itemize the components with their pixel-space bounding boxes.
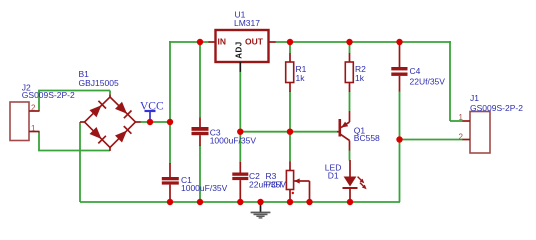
potentiometer R3 wiper arrow <box>292 178 310 202</box>
pin number 1 of J1 <box>459 113 464 122</box>
connector J1 <box>470 112 490 154</box>
node VCC tap <box>147 119 153 125</box>
wire: right vertical drop to J1 pin 1 <box>450 41 463 121</box>
label VCC <box>140 100 164 112</box>
pin number 2 of J1 <box>459 132 464 141</box>
label C1 value 1000uF/35V <box>181 183 228 193</box>
wire: R1 top lead wire <box>289 42 291 53</box>
label Q1 value BC558 <box>354 133 380 143</box>
wire: bottom ground rail <box>80 201 400 203</box>
pin name ADJ (rotated) <box>235 41 244 59</box>
junction ground rail C2 <box>237 199 243 205</box>
wire: C4 node to J1 pin 2 <box>400 139 464 141</box>
label J1 refdes <box>470 93 479 103</box>
label R2 refdes <box>355 64 366 74</box>
label R2 value 1k <box>355 73 365 83</box>
LED D1 <box>343 160 358 202</box>
wire: R2 bottom to Q1 emitter <box>349 92 351 112</box>
node OUT- at J1 pin 2 tap <box>396 136 402 142</box>
pin stub J1 pin 1 <box>463 120 471 122</box>
junction ground rail C3 <box>197 199 203 205</box>
svg-text:POT: POT <box>266 179 283 189</box>
pin stub U1 IN <box>209 41 216 43</box>
bridge diode (left to bottom) <box>90 127 106 143</box>
resistor R1 <box>286 53 294 92</box>
bridge diode (top to right) <box>115 102 132 119</box>
svg-text:LM317: LM317 <box>234 18 260 28</box>
capacitor C3 <box>192 118 209 147</box>
pin stub J1 pin 2 <box>463 139 471 141</box>
label C4 value 22Uf/35V <box>410 77 446 87</box>
svg-text:2: 2 <box>31 103 36 112</box>
potentiometer R3 body <box>286 162 293 203</box>
bridge diode (bottom to right) <box>115 126 131 142</box>
label R1 value 1k <box>296 73 306 83</box>
svg-text:1000uF/35V: 1000uF/35V <box>210 136 257 146</box>
wire: J2 pin 1 to bridge AC bottom (crosses vertical, no junction) <box>38 132 110 151</box>
pin stub J2 pin 2 <box>29 110 40 112</box>
transistor Q1 emitter with PNP arrow <box>341 111 350 128</box>
label C3 value 1000uF/35V <box>210 136 257 146</box>
wire: C3 column upper <box>199 42 201 118</box>
node VCC at C1 column <box>167 119 173 125</box>
wire: bridge negative vertical down to ground rail <box>79 122 81 202</box>
svg-text:D1: D1 <box>328 170 339 180</box>
node VOUT at R2 tap <box>346 39 352 45</box>
svg-text:GS009S-2P-2: GS009S-2P-2 <box>22 90 75 100</box>
label J2 value GS009S-2P-2 <box>22 90 75 100</box>
svg-text:IN: IN <box>218 37 227 47</box>
wire: R1 bottom lead wire <box>289 92 291 132</box>
bridge diode (left to top) <box>90 101 107 118</box>
svg-text:2: 2 <box>459 132 464 141</box>
label LED <box>325 162 342 172</box>
power symbol VCC <box>145 111 156 122</box>
svg-text:22Uf/35V: 22Uf/35V <box>410 77 446 87</box>
node ADJ at C2 column <box>237 129 243 135</box>
label C2 value 22uF/35V <box>249 179 286 189</box>
svg-text:ADJ: ADJ <box>235 41 244 59</box>
label R3 refdes <box>266 171 277 181</box>
connector J2 <box>10 102 29 141</box>
wire: C4 column lower down to ground rail <box>399 91 401 202</box>
pin name IN <box>218 37 227 47</box>
pin number 2 of J2 <box>31 103 36 112</box>
svg-text:OUT: OUT <box>245 37 264 47</box>
pin number 1 of J2 <box>31 124 36 133</box>
wire: R2 top lead wire <box>349 42 351 53</box>
label Q1 refdes <box>354 126 366 136</box>
label B1 refdes <box>79 69 90 79</box>
capacitor C1 <box>162 163 179 202</box>
regulator U1 LM317 box <box>216 30 269 62</box>
svg-text:GS009S-2P-2: GS009S-2P-2 <box>470 103 523 113</box>
wire: VCC rail from bridge + to C1 column <box>140 121 171 123</box>
transistor Q1 collector <box>340 134 350 151</box>
svg-text:VCC: VCC <box>140 100 164 112</box>
pin stub U1 ADJ (dark) <box>239 62 241 72</box>
label J2 refdes <box>22 83 31 93</box>
junction ground rail LED <box>347 199 353 205</box>
node VIN at C3 tap <box>197 39 203 45</box>
wire: J2 pin 2 to bridge AC top <box>38 91 110 112</box>
capacitor C4 <box>391 42 407 92</box>
label U1 value LM317 <box>234 18 260 28</box>
wire: C3 column lower to ground rail <box>199 146 201 203</box>
wire: top rail left segment (VIN to U1) <box>169 41 209 43</box>
wire: R3 top wire from ADJ net <box>289 132 291 162</box>
label D1 <box>328 170 339 180</box>
bridge rectifier B1 diamond outline <box>80 95 141 151</box>
label C3 refdes <box>210 128 221 138</box>
label C1 refdes <box>181 175 192 185</box>
svg-text:1000uF/35V: 1000uF/35V <box>181 183 228 193</box>
svg-text:BC558: BC558 <box>354 133 380 143</box>
label J1 value GS009S-2P-2 <box>470 103 523 113</box>
ground symbol <box>251 202 271 219</box>
svg-text:GBJ15005: GBJ15005 <box>79 78 119 88</box>
junction ground rail R3 <box>287 199 293 205</box>
wire: C1 column upper <box>169 122 171 164</box>
wire: Q1 collector to LED <box>349 150 351 161</box>
junction ground rail R3 wiper <box>306 199 312 205</box>
wire: ADJ net horizontal (ADJ - R1 - Q1 base) <box>240 131 337 133</box>
resistor R2 <box>345 53 353 92</box>
wire: top rail right segment (U1 OUT across R1 R2 C4) <box>275 41 451 43</box>
label C2 refdes <box>249 171 260 181</box>
node VOUT at R1 tap <box>287 39 293 45</box>
wire: left vertical from top rail down to VCC rail <box>169 41 171 122</box>
label C4 refdes <box>410 66 421 76</box>
svg-text:1k: 1k <box>355 73 365 83</box>
junction ground rail C1 <box>167 199 173 205</box>
pin stub J2 pin 1 <box>29 131 40 133</box>
node ADJ at R1 bottom <box>287 129 293 135</box>
label B1 value GBJ15005 <box>79 78 119 88</box>
label R3 value POT <box>266 179 283 189</box>
transistor Q1 base bar <box>337 119 340 137</box>
svg-text:C4: C4 <box>410 66 421 76</box>
node VOUT at C4 tap <box>396 39 402 45</box>
pin name OUT <box>245 37 264 47</box>
svg-text:J1: J1 <box>470 93 479 103</box>
svg-text:1: 1 <box>31 124 36 133</box>
svg-text:1k: 1k <box>296 73 306 83</box>
wire: ADJ column (U1 ADJ down to C2) <box>239 72 241 163</box>
pin stub U1 OUT <box>269 41 276 43</box>
junction ground rail at ground symbol <box>257 199 263 205</box>
capacitor C2 <box>232 162 248 202</box>
label R1 refdes <box>296 64 307 74</box>
LED D1 emission arrows <box>358 177 367 190</box>
label U1 refdes <box>235 10 246 20</box>
svg-text:1: 1 <box>459 113 464 122</box>
